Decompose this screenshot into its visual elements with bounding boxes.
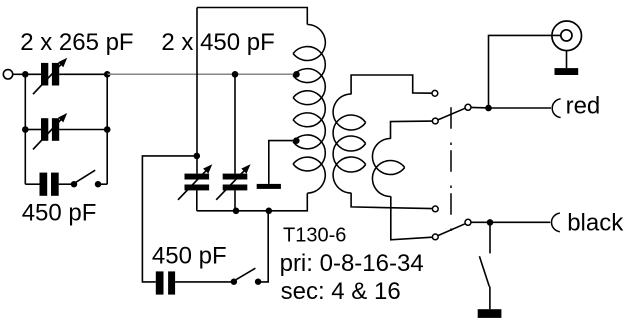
switch S3a throw 1 contact	[432, 90, 438, 96]
switch S1 pole dot	[71, 181, 77, 187]
switch S2 pole dot	[231, 279, 237, 285]
wire C6 to switch S2	[175, 281, 234, 283]
switch S1 arm	[76, 170, 95, 182]
node C junction	[22, 126, 29, 133]
node H junction	[266, 208, 273, 215]
wire secondary 16t bottom lead	[351, 193, 432, 209]
node G junction	[233, 208, 240, 215]
capacitor C3 fixed 450 pF	[40, 173, 48, 196]
inductor T1 secondary 4t winding	[372, 138, 404, 196]
switch S3b arm	[438, 224, 465, 236]
wire secondary 4t bottom lead	[391, 196, 433, 240]
svg-text:2 x 265 pF: 2 x 265 pF	[20, 29, 133, 56]
node T1 primary tap 16 junction	[293, 71, 300, 78]
inductor T1 primary winding	[293, 24, 325, 193]
wire S4 to ground	[489, 287, 491, 310]
ground G1 bar	[257, 184, 281, 189]
wire top rail gray to coil tap	[107, 73, 296, 75]
wire padder tap	[142, 156, 196, 282]
terminal red connector arc	[552, 99, 560, 118]
svg-text:450 pF: 450 pF	[22, 199, 97, 226]
switch S3a arm	[438, 108, 465, 120]
node A junction	[22, 71, 29, 78]
wire middle branch right	[59, 129, 107, 131]
wire middle box top edge	[197, 8, 307, 25]
node T1 primary tap 8 junction	[293, 137, 300, 144]
wire left bus vertical	[24, 74, 26, 184]
wire node R to red terminal	[489, 107, 552, 109]
node D junction	[104, 126, 111, 133]
wire middle box left edge	[196, 8, 198, 174]
wire node S to black terminal	[490, 221, 550, 223]
wire coax shell to ground	[566, 51, 568, 69]
node B junction	[104, 71, 111, 78]
switch S3b throw 2 contact	[432, 234, 438, 240]
ground G3 bar	[478, 309, 502, 318]
svg-text:sec: 4 & 16: sec: 4 & 16	[281, 278, 401, 305]
wire C3 to switch S1	[59, 183, 74, 185]
ground G2 bar	[555, 68, 579, 75]
wire bottom branch left	[25, 183, 39, 185]
capacitor C2 variable 265 pF	[33, 118, 62, 149]
switch S3b throw 1 contact	[432, 206, 438, 212]
wire C5 stem top	[234, 74, 236, 173]
wire secondary 4t top lead	[391, 121, 433, 139]
wire secondary 16t top lead	[351, 75, 432, 95]
switch S3a pole contact	[465, 104, 471, 110]
wire node S down to switch S4	[489, 222, 491, 253]
node S junction	[487, 219, 494, 226]
wire middle branch left	[25, 129, 41, 131]
wire node R to coax	[489, 35, 561, 108]
connector J2 coax outer	[552, 21, 582, 51]
switch S3b pole contact	[465, 219, 471, 225]
switch S3a throw 2 contact	[432, 118, 438, 124]
switch S2 throw dot	[255, 279, 261, 285]
node F junction	[232, 71, 239, 78]
wire ground G1 to coil tap	[269, 141, 297, 184]
switch S3 gang linkage	[450, 107, 452, 235]
node R junction	[485, 105, 492, 112]
svg-text:T130-6: T130-6	[283, 224, 346, 246]
svg-text:red: red	[566, 92, 601, 119]
wire bottom rail	[197, 193, 307, 211]
svg-text:pri: 0-8-16-34: pri: 0-8-16-34	[280, 250, 424, 277]
wire top rail black	[59, 73, 107, 75]
wire S3b pole to node S	[471, 221, 487, 223]
svg-text:black: black	[567, 210, 624, 237]
capacitor C6 fixed 450 pF	[156, 271, 164, 294]
svg-text:2 x 450 pF: 2 x 450 pF	[161, 29, 274, 56]
inductor T1 secondary 16t winding	[333, 94, 366, 193]
wire S2 to bottom rail	[258, 211, 268, 282]
wire input to node A	[13, 73, 41, 75]
capacitor C4 variable 450 pF	[178, 169, 207, 200]
capacitor C1 variable 265 pF	[33, 63, 62, 94]
connector J2 coax inner	[561, 30, 572, 41]
wire S1 to right bus	[98, 183, 107, 185]
svg-text:450 pF: 450 pF	[152, 242, 227, 269]
wire right bus vertical	[106, 74, 108, 184]
switch S1 throw dot	[95, 181, 101, 187]
terminal black connector arc	[552, 213, 560, 232]
wire S3a pole to node R	[471, 106, 489, 109]
terminal J1 input	[3, 70, 12, 79]
node E junction	[194, 153, 201, 160]
switch S4 arm	[479, 256, 489, 286]
capacitor C5 variable 450 pF	[216, 169, 245, 200]
switch S2 arm	[236, 268, 255, 279]
